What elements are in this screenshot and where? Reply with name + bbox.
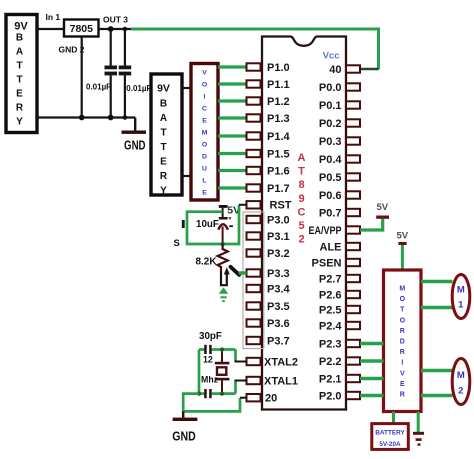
svg-text:T: T: [160, 142, 166, 153]
wire Vcc top (green): [131, 29, 379, 69]
svg-text:P3.2: P3.2: [267, 248, 290, 260]
svg-text:C: C: [298, 206, 306, 218]
wire driver to ground: [417, 412, 420, 433]
wire gnd rail: [37, 116, 135, 118]
svg-text:Y: Y: [160, 186, 167, 197]
svg-text:ALE: ALE: [320, 241, 342, 253]
svg-text:P1.3: P1.3: [267, 113, 290, 125]
wire reset loop (green): [187, 205, 239, 244]
svg-text:8.2K: 8.2K: [196, 256, 217, 268]
svg-text:P3.4: P3.4: [267, 283, 291, 295]
svg-text:R: R: [400, 392, 405, 399]
svg-text:A: A: [160, 113, 167, 124]
svg-text:P3.7: P3.7: [267, 335, 290, 347]
wire driver to battery3: [392, 412, 395, 424]
battery BT2 9V: [151, 74, 182, 197]
svg-text:OUT 3: OUT 3: [103, 14, 128, 24]
wire to pin 40: [360, 68, 379, 71]
capacitor C3 30pF top: [199, 345, 236, 354]
svg-text:Vcc: Vcc: [323, 51, 340, 62]
svg-text:RST: RST: [270, 200, 292, 212]
svg-text:E: E: [202, 190, 207, 197]
label AT89C52 vertical red: [298, 152, 306, 246]
svg-text:B: B: [160, 99, 167, 110]
svg-text:I: I: [401, 360, 403, 367]
svg-text:0.01µF: 0.01µF: [86, 83, 111, 92]
svg-text:P1.0: P1.0: [267, 62, 290, 74]
svg-text:R: R: [160, 171, 168, 182]
svg-text:10uF: 10uF: [196, 219, 219, 230]
capacitor C4 30pF bottom: [199, 389, 236, 398]
svg-text:0.01µF: 0.01µF: [126, 84, 151, 93]
svg-text:In 1: In 1: [46, 12, 61, 22]
svg-text:P1.1: P1.1: [267, 79, 290, 91]
svg-text:40: 40: [329, 64, 341, 76]
crystal Q1 12MHz: [215, 350, 230, 394]
wire 7805 gnd down: [81, 37, 83, 118]
wires driver to M2: [421, 371, 453, 396]
battery BT1 9V: [6, 15, 37, 133]
svg-text:PSEN: PSEN: [312, 257, 342, 269]
svg-text:M: M: [457, 370, 465, 381]
svg-text:A: A: [298, 152, 306, 164]
svg-text:S: S: [174, 238, 180, 249]
svg-text:9V: 9V: [157, 83, 170, 95]
svg-text:GND: GND: [124, 139, 146, 153]
svg-text:M: M: [457, 285, 465, 296]
svg-text:P0.7: P0.7: [319, 207, 342, 219]
svg-text:P2.4: P2.4: [319, 320, 343, 332]
svg-text:P0.0: P0.0: [319, 82, 342, 94]
svg-text:B: B: [16, 33, 23, 44]
svg-text:P3.6: P3.6: [267, 318, 290, 330]
svg-text:Y: Y: [16, 117, 23, 128]
svg-text:P0.3: P0.3: [319, 136, 342, 148]
capacitor C1 0.01uF: [105, 29, 118, 118]
svg-text:5V: 5V: [397, 231, 409, 242]
voice module U3: [191, 64, 218, 201]
svg-text:T: T: [160, 128, 166, 139]
svg-text:V: V: [400, 370, 405, 377]
svg-text:P2.6: P2.6: [319, 289, 342, 301]
supply 5V (EA/VPP): [376, 202, 389, 219]
ground GND3: [413, 432, 424, 446]
svg-text:5V: 5V: [377, 202, 389, 213]
svg-text:7805: 7805: [70, 23, 94, 35]
svg-text:P3.1: P3.1: [267, 231, 290, 243]
wire RST stub: [239, 204, 247, 206]
svg-text:E: E: [16, 89, 23, 100]
wire gnd net to pin 20: [183, 394, 240, 412]
svg-text:XTAL1: XTAL1: [264, 375, 298, 387]
svg-text:30pF: 30pF: [199, 331, 222, 342]
svg-text:BATTERY: BATTERY: [375, 430, 405, 437]
pot wiper arrow: [221, 267, 230, 285]
capacitor C2 0.01uF: [119, 29, 132, 118]
left pin labels: [264, 62, 298, 405]
wire EA/VPP to 5V: [360, 219, 383, 231]
svg-text:O: O: [400, 317, 406, 324]
svg-text:2: 2: [458, 386, 463, 397]
wire battery to 7805: [37, 28, 64, 30]
motor M1: [452, 275, 470, 319]
svg-text:O: O: [400, 296, 406, 303]
ground GND1: [122, 118, 147, 153]
svg-text:P1.6: P1.6: [267, 165, 290, 177]
svg-text:5: 5: [298, 220, 304, 232]
svg-text:P2.5: P2.5: [319, 304, 342, 316]
svg-text:O: O: [202, 82, 207, 89]
svg-text:L: L: [202, 178, 206, 185]
svg-text:9: 9: [298, 193, 304, 205]
svg-text:U: U: [202, 166, 207, 173]
wire switch to P3.3: [239, 271, 247, 274]
left pin boxes: [247, 63, 261, 401]
wire 5V to driver: [401, 245, 404, 270]
wire left rail caps: [198, 350, 201, 394]
svg-text:1: 1: [458, 300, 464, 311]
switch S contact: [182, 220, 185, 228]
svg-text:Mhz: Mhz: [201, 375, 219, 385]
switch lever: [231, 267, 240, 275]
wires driver to M1: [421, 282, 453, 308]
svg-text:XTAL2: XTAL2: [264, 356, 298, 368]
wires P2.3-P2.0 to driver: [360, 344, 384, 396]
ground arrow (green): [219, 287, 229, 302]
svg-text:12: 12: [203, 355, 213, 365]
svg-text:T: T: [16, 61, 22, 72]
right pin boxes: [346, 65, 360, 399]
svg-text:T: T: [298, 166, 305, 178]
svg-text:9V: 9V: [14, 21, 28, 33]
op IC U1 AT89C52 body: [262, 37, 346, 410]
svg-text:P3.0: P3.0: [267, 214, 290, 226]
svg-text:R: R: [400, 328, 405, 335]
svg-text:P2.3: P2.3: [319, 338, 342, 350]
svg-text:P1.5: P1.5: [267, 148, 290, 160]
svg-text:P2.2: P2.2: [319, 356, 342, 368]
svg-text:T: T: [16, 75, 22, 86]
svg-text:P0.1: P0.1: [319, 100, 342, 112]
battery BT3 5V-20A: [372, 424, 409, 450]
svg-text:T: T: [400, 307, 405, 314]
junction dot reset: [220, 242, 224, 246]
svg-text:R: R: [400, 349, 405, 356]
junction dots: [79, 26, 127, 120]
svg-text:P2.0: P2.0: [319, 390, 342, 402]
wires voice module to P1.0-P1.7: [218, 67, 247, 188]
wire battery2 to module bottom: [182, 175, 191, 177]
svg-text:P2.7: P2.7: [319, 273, 342, 285]
capacitor C5 10uF: [218, 208, 233, 244]
wire 7805 output: [99, 28, 134, 30]
wire pin 20 stub: [240, 397, 247, 399]
svg-text:P1.2: P1.2: [267, 96, 290, 108]
svg-text:R: R: [16, 103, 24, 114]
wire to XTAL1: [235, 381, 247, 394]
svg-text:E: E: [400, 381, 405, 388]
svg-text:C: C: [202, 106, 207, 113]
svg-text:E: E: [202, 118, 207, 125]
svg-text:D: D: [400, 339, 405, 346]
svg-text:D: D: [202, 154, 207, 161]
motor M2: [452, 359, 470, 405]
svg-text:P0.6: P0.6: [319, 190, 342, 202]
svg-text:20: 20: [265, 393, 277, 405]
svg-text:M: M: [202, 130, 208, 137]
wire to XTAL2: [235, 350, 247, 362]
svg-text:E: E: [160, 157, 167, 168]
svg-text:A: A: [16, 47, 23, 58]
svg-text:O: O: [202, 142, 207, 149]
svg-text:V: V: [202, 70, 207, 77]
svg-text:P1.7: P1.7: [267, 183, 290, 195]
ground GND2: [172, 411, 197, 443]
supply 5V (driver): [397, 231, 409, 246]
svg-text:P3.3: P3.3: [267, 268, 290, 280]
svg-text:P3.5: P3.5: [267, 301, 290, 313]
svg-text:5V-20A: 5V-20A: [379, 441, 401, 448]
resistor R1 8.2K: [218, 244, 228, 272]
wire battery2 to module top: [182, 87, 191, 89]
supply 5V (reset): [219, 205, 240, 217]
svg-text:P0.4: P0.4: [319, 154, 343, 166]
svg-text:P0.5: P0.5: [319, 172, 342, 184]
svg-text:GND: GND: [172, 429, 196, 444]
svg-text:8: 8: [298, 179, 304, 191]
svg-text:EA/VPP: EA/VPP: [309, 225, 342, 237]
junction dots crystal: [197, 347, 224, 395]
svg-text:I: I: [204, 94, 206, 101]
right pin labels: [309, 64, 343, 403]
svg-text:P0.2: P0.2: [319, 118, 342, 130]
regulator U2 7805: [64, 20, 99, 37]
selection rect around P3 pins: [243, 212, 264, 349]
svg-text:2: 2: [298, 234, 304, 246]
svg-text:P1.4: P1.4: [267, 131, 291, 143]
svg-text:M: M: [399, 286, 405, 293]
motor driver U4: [384, 270, 422, 412]
svg-text:P2.1: P2.1: [319, 373, 342, 385]
